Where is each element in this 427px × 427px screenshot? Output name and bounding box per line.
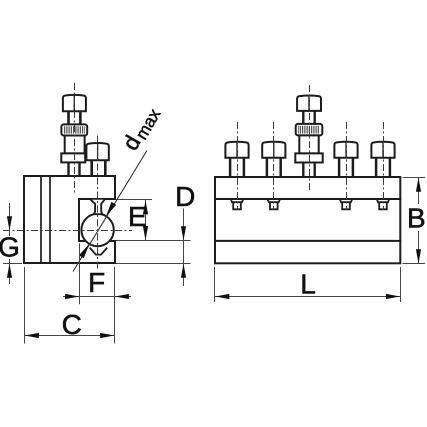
- tall clamping bolt left view : hex head: [61, 95, 87, 136]
- F extension left: [79, 244, 81, 305]
- B arrow up: [416, 178, 421, 192]
- D dimension line: [183, 209, 185, 287]
- L dimension line: [215, 296, 400, 298]
- centerline bolt 4: [346, 122, 348, 210]
- knurl hatching: [64, 126, 84, 133]
- svg-text:F: F: [88, 267, 105, 298]
- C dimension line: [25, 335, 115, 337]
- E extension bottom / seat line: [116, 240, 191, 242]
- centerline bolt 2: [273, 122, 275, 210]
- clamp screw tip pressing bore: [91, 200, 105, 215]
- clamp tip 2: [267, 199, 280, 210]
- centerline bolt 1: [237, 122, 239, 210]
- G label: [0, 236, 19, 259]
- svg-text:D: D: [175, 181, 195, 212]
- centerline tall bolt: [74, 83, 76, 193]
- F arrow right: [65, 294, 79, 299]
- C extension left: [24, 267, 26, 344]
- svg-text:C: C: [62, 309, 82, 340]
- lower shank line right: [78, 162, 80, 175]
- centerline center bolt: [309, 85, 311, 190]
- D arrow down: [181, 226, 186, 240]
- body face line 2: [49, 176, 51, 263]
- D arrow up: [181, 264, 186, 278]
- funnel relief below bore: [90, 248, 108, 255]
- hex bolt 5 right view: [371, 141, 394, 176]
- hex head facet line: [73, 95, 75, 111]
- L extension right: [400, 267, 402, 302]
- hex bolt 1 right view: [225, 141, 248, 176]
- centerline bolt 5: [383, 122, 385, 210]
- bore circle d max: [81, 214, 113, 246]
- centerline bore horizontal: [3, 230, 132, 232]
- svg-text:G: G: [0, 232, 20, 263]
- E dimension line: [145, 200, 147, 240]
- clamp tip 5: [377, 199, 390, 210]
- hex bolt 2 right view: [262, 141, 285, 176]
- E arrow up: [143, 200, 148, 214]
- L extension left: [214, 267, 216, 302]
- G dimension line: [9, 203, 11, 284]
- svg-text:E: E: [128, 201, 147, 232]
- slot floor line: [215, 240, 400, 242]
- hex clamp bolt left view: [86, 143, 108, 176]
- holder body outline right view: [215, 177, 400, 263]
- G arrow up: [7, 264, 12, 278]
- B label: [407, 204, 427, 231]
- tall clamping bolt right view : hex head: [296, 95, 323, 135]
- lock nut cylinder: [65, 136, 85, 154]
- bolt shank line left: [90, 160, 93, 176]
- knurled nut: [61, 124, 87, 135]
- knurl hatching center bolt: [299, 126, 319, 134]
- upper shank line left: [67, 111, 70, 124]
- F extension right: [114, 267, 116, 344]
- slot floor right segment: [109, 240, 115, 242]
- D extension bottom: [116, 263, 191, 265]
- clamp tip 1: [231, 199, 244, 210]
- d max arrow upper: [106, 202, 116, 216]
- svg-text:B: B: [407, 203, 426, 234]
- hex bolt facet line: [97, 143, 99, 160]
- centerline bore vertical: [97, 136, 99, 270]
- bolt shank line right: [104, 160, 107, 176]
- svg-text:L: L: [300, 269, 316, 300]
- d max arrow lower: [79, 244, 89, 258]
- B dimension line: [418, 178, 420, 264]
- body face line 1: [40, 176, 42, 263]
- C arrow left: [25, 333, 39, 338]
- upper shank line right: [79, 111, 82, 124]
- B extension bottom: [403, 263, 426, 265]
- G extension bottom-left: [3, 263, 22, 265]
- clamp tip 4: [340, 199, 353, 210]
- F arrow left: [115, 294, 129, 299]
- flange washer: [61, 153, 85, 162]
- slot ceiling line: [215, 198, 400, 200]
- L arrow left: [215, 294, 229, 299]
- E arrow down: [143, 226, 148, 240]
- C arrow right: [100, 333, 114, 338]
- d max leader line: [73, 151, 147, 272]
- holder body outline left view: [24, 176, 115, 263]
- B extension top: [403, 177, 426, 179]
- B arrow down: [416, 249, 421, 263]
- E extension top: [116, 199, 152, 201]
- L arrow right: [386, 294, 400, 299]
- lower shank line left: [67, 162, 69, 175]
- hex bolt 4 right view: [334, 141, 357, 176]
- F dimension line: [63, 296, 131, 298]
- G arrow down: [7, 216, 12, 230]
